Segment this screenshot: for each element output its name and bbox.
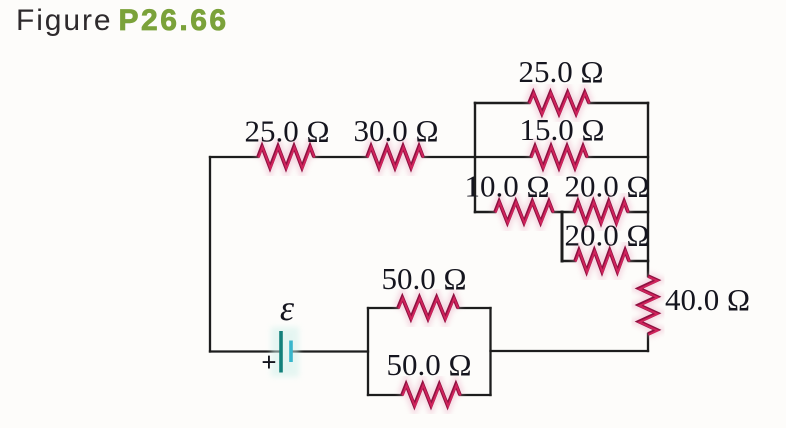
wire: top branch right segment — [589, 102, 648, 105]
wire: bottom wire left section to battery — [210, 350, 279, 352]
battery EMF source — [271, 327, 299, 377]
wire: 50ohm bottom branch left segment — [368, 394, 402, 396]
wire: 50ohm top branch left segment — [368, 307, 398, 309]
wire: bottom branch right segment — [628, 211, 648, 214]
svg-text:P26.66: P26.66 — [119, 4, 229, 37]
svg-text:30.0 Ω: 30.0 Ω — [353, 113, 438, 148]
resistor 10.0 ohm (parallel block, bottom branch) — [495, 202, 553, 224]
wire: parallel-block left rail — [474, 103, 476, 212]
svg-text:50.0 Ω: 50.0 Ω — [381, 261, 466, 296]
wire: top branch left segment — [475, 102, 529, 105]
wire: between 25ohm and 30ohm resistors — [314, 156, 367, 158]
caption "Figure P26.66" — [16, 4, 229, 37]
wire: below 40ohm resistor to bottom wire — [647, 334, 649, 351]
svg-text:20.0 Ω: 20.0 Ω — [564, 169, 649, 204]
svg-text:50.0 Ω: 50.0 Ω — [386, 347, 471, 382]
svg-text:20.0 Ω: 20.0 Ω — [564, 218, 649, 253]
resistor 15.0 ohm (parallel block, middle branch) — [531, 147, 587, 169]
resistor 50.0 ohm (box, top branch) — [398, 298, 458, 320]
svg-text:15.0 Ω: 15.0 Ω — [519, 112, 604, 147]
resistor 50.0 ohm (box, bottom branch) — [402, 385, 460, 407]
resistor 25.0 ohm (series, top wire) — [258, 147, 314, 169]
svg-text:25.0 Ω: 25.0 Ω — [244, 114, 329, 149]
resistor 30.0 ohm (series, top wire) — [367, 147, 423, 169]
svg-text:Figure: Figure — [16, 4, 112, 37]
wire: parallel-block right rail down to 40ohm — [647, 103, 649, 276]
svg-text:10.0 Ω: 10.0 Ω — [464, 169, 549, 204]
wire: junction drop to lower 20ohm branch — [561, 212, 564, 261]
wire: bottom wire right section — [491, 350, 649, 352]
wire: 30ohm resistor to 15ohm resistor (crosses block left rail) — [423, 156, 531, 158]
svg-text:ε: ε — [280, 288, 295, 328]
wire: 15ohm resistor to right rail — [587, 156, 648, 158]
wire: top wire, corner to 25ohm resistor — [210, 156, 258, 158]
resistor 25.0 ohm (parallel block, top branch) — [529, 93, 589, 115]
wire: lower 20ohm branch right segment — [629, 260, 648, 263]
wire: 50ohm box right rail — [489, 308, 491, 395]
wire: 50ohm box left rail — [367, 308, 369, 395]
wire: left vertical of outer loop — [209, 157, 211, 352]
svg-text:40.0 Ω: 40.0 Ω — [665, 282, 750, 317]
resistor 20.0 ohm (lower parallel branch) — [575, 251, 629, 273]
svg-text:+: + — [261, 347, 276, 377]
wire: lower 20ohm branch left segment — [562, 260, 575, 263]
wire: 50ohm bottom branch right segment — [460, 394, 491, 396]
wire: 50ohm top branch right segment — [458, 307, 491, 309]
wire: bottom branch left segment — [475, 211, 495, 214]
wire: bottom branch middle segment (node between 10ohm and 20ohm) — [553, 211, 574, 214]
wire: battery to 50ohm parallel box — [293, 350, 369, 352]
resistor 40.0 ohm (right side, vertical) — [639, 276, 657, 335]
svg-text:25.0 Ω: 25.0 Ω — [518, 54, 603, 89]
resistor 20.0 ohm (parallel block, bottom branch) — [574, 202, 628, 224]
